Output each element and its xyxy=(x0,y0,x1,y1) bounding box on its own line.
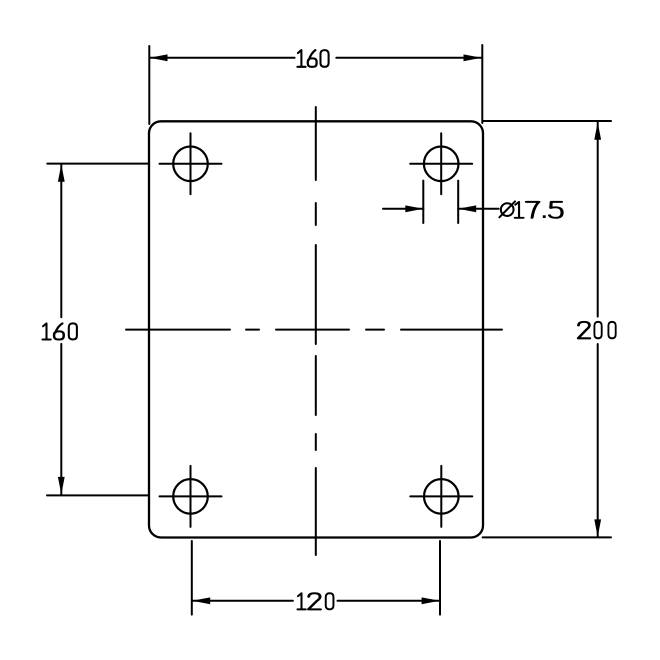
left dim text 160 xyxy=(43,323,77,339)
top dim extension line right xyxy=(481,45,483,123)
right dim arrow up xyxy=(594,122,601,140)
left dim extension line top xyxy=(47,163,148,165)
left dim arrow down xyxy=(58,477,65,495)
hole diameter text decimal point xyxy=(543,215,546,218)
hole H3 crosshair xyxy=(160,466,222,527)
bottom dim arrow right xyxy=(422,597,440,604)
hole diameter dim arrow right xyxy=(458,205,476,212)
top dim extension line left xyxy=(148,46,150,124)
right dim text 200 xyxy=(578,322,615,338)
top dim arrow left xyxy=(150,54,168,61)
hole H2 crosshair xyxy=(410,133,472,194)
bottom dim arrow left xyxy=(192,597,210,604)
left dim arrow up xyxy=(58,164,65,182)
top dim line xyxy=(150,57,482,59)
vertical centerline xyxy=(315,107,317,555)
hole diameter dim extension line left xyxy=(422,181,424,223)
hole H4 crosshair xyxy=(410,466,472,527)
hole diameter dim extension line right xyxy=(457,181,459,223)
hole H1 top-left circle xyxy=(173,147,208,182)
hole diameter text dia 17.5 xyxy=(499,201,562,217)
hole diameter dim arrow line right xyxy=(458,208,498,210)
right dim extension line bottom xyxy=(483,536,611,538)
bottom dim extension line left xyxy=(191,541,193,615)
top dim text 160 xyxy=(297,50,328,67)
hole H4 bottom-right circle xyxy=(424,479,459,514)
right dim arrow down xyxy=(594,519,601,537)
bottom dim line xyxy=(192,600,439,602)
plate outline xyxy=(149,121,483,537)
top dim arrow right xyxy=(464,54,482,61)
hole diameter dim arrow left xyxy=(405,205,423,212)
left dim line xyxy=(60,164,62,494)
bottom dim text 120 xyxy=(298,593,334,609)
hole H3 bottom-left circle xyxy=(173,479,208,514)
horizontal centerline xyxy=(126,329,502,331)
right dim extension line top xyxy=(483,120,611,122)
hole H2 top-right circle xyxy=(424,147,459,182)
left dim extension line bottom xyxy=(47,494,148,496)
bottom dim extension line right xyxy=(439,541,441,615)
right dim line xyxy=(597,122,599,537)
hole diameter dim arrow line left xyxy=(383,208,423,210)
hole H1 crosshair xyxy=(160,133,222,194)
